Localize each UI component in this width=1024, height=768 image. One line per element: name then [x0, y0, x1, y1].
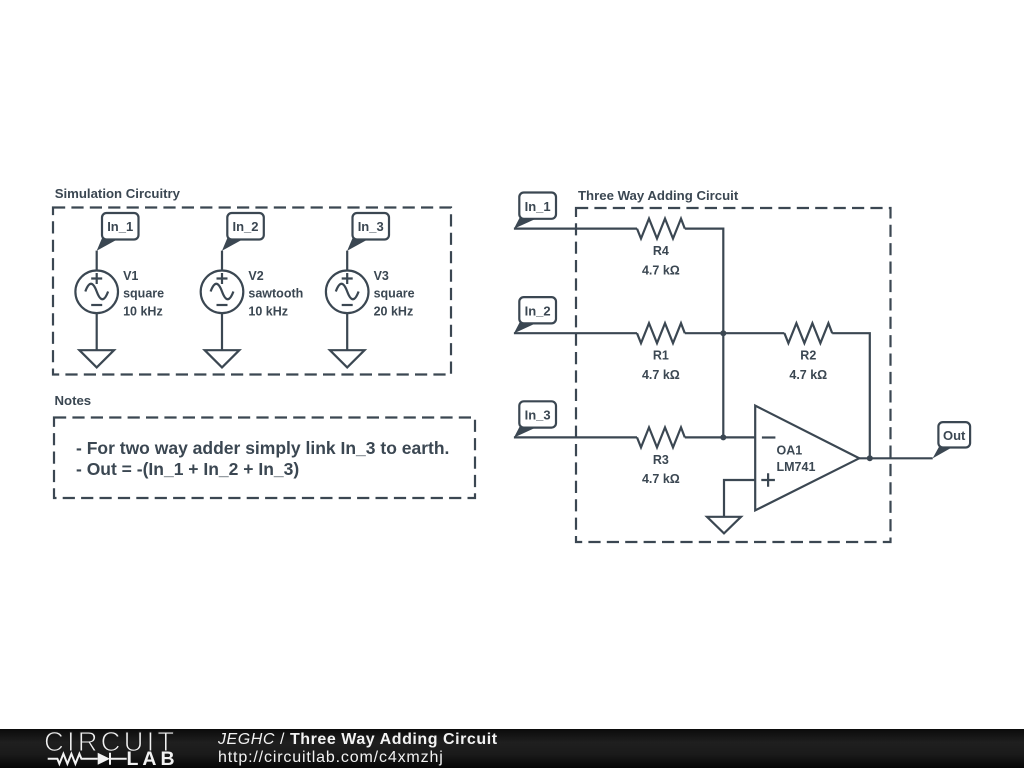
svg-text:LM741: LM741	[777, 460, 816, 474]
svg-text:http://circuitlab.com/c4xmzhj: http://circuitlab.com/c4xmzhj	[218, 749, 444, 766]
svg-text:Simulation Circuitry: Simulation Circuitry	[55, 186, 181, 201]
svg-text:JEGHC / Three Way Adding Circu: JEGHC / Three Way Adding Circuit	[217, 731, 498, 748]
svg-text:10 kHz: 10 kHz	[248, 304, 288, 318]
svg-text:4.7 kΩ: 4.7 kΩ	[642, 368, 680, 382]
svg-text:In_3: In_3	[525, 408, 551, 423]
svg-text:square: square	[374, 287, 415, 301]
svg-text:In_1: In_1	[107, 219, 133, 234]
svg-text:R4: R4	[653, 244, 669, 258]
svg-text:In_3: In_3	[358, 219, 384, 234]
svg-text:4.7 kΩ: 4.7 kΩ	[642, 472, 680, 486]
svg-text:R1: R1	[653, 349, 669, 363]
svg-text:In_1: In_1	[525, 199, 551, 214]
svg-text:sawtooth: sawtooth	[248, 287, 303, 301]
svg-text:V2: V2	[248, 269, 263, 283]
svg-text:10 kHz: 10 kHz	[123, 304, 163, 318]
svg-text:4.7 kΩ: 4.7 kΩ	[789, 368, 827, 382]
svg-text:LAB: LAB	[127, 748, 179, 768]
svg-text:- Out = -(In_1 + In_2 + In_3): - Out = -(In_1 + In_2 + In_3)	[76, 459, 299, 479]
svg-text:square: square	[123, 287, 164, 301]
svg-text:20 kHz: 20 kHz	[374, 304, 414, 318]
svg-text:Notes: Notes	[55, 393, 92, 408]
svg-text:OA1: OA1	[777, 444, 803, 458]
svg-text:R2: R2	[800, 349, 816, 363]
svg-text:Three Way Adding Circuit: Three Way Adding Circuit	[578, 188, 739, 203]
svg-text:Out: Out	[943, 428, 966, 443]
svg-text:R3: R3	[653, 453, 669, 467]
svg-text:4.7 kΩ: 4.7 kΩ	[642, 263, 680, 277]
svg-text:In_2: In_2	[232, 219, 258, 234]
svg-text:In_2: In_2	[525, 304, 551, 319]
svg-text:V1: V1	[123, 269, 138, 283]
svg-text:V3: V3	[374, 269, 389, 283]
svg-text:- For two way adder simply lin: - For two way adder simply link In_3 to …	[76, 438, 449, 458]
